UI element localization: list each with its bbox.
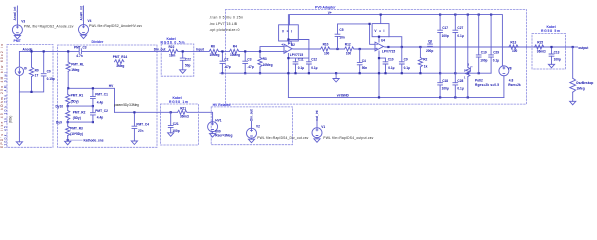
svg-text:36mΩ: 36mΩ bbox=[180, 115, 189, 119]
svg-text:0.1µ: 0.1µ bbox=[311, 66, 317, 70]
voltage source V4 bbox=[79, 6, 143, 35]
svg-text:Rser=2k: Rser=2k bbox=[508, 83, 521, 87]
wire R4 to U1 bbox=[239, 47, 284, 74]
ground C13 bbox=[548, 64, 554, 68]
behavioral source B4 bbox=[372, 15, 402, 47]
resistor R21 bbox=[178, 107, 190, 119]
svg-text:50p: 50p bbox=[185, 63, 191, 67]
svg-text:V4: V4 bbox=[88, 19, 92, 23]
capacitor C17 bbox=[438, 15, 449, 74]
mid rail virt bbox=[220, 72, 491, 74]
node dot B4 bottom bbox=[378, 36, 380, 38]
svg-text:0.1µ: 0.1µ bbox=[493, 58, 499, 62]
wire pmt bottom bbox=[19, 75, 43, 141]
svg-text:+: + bbox=[281, 43, 283, 47]
svg-text:PWL file=RapIDS4_Div_out.csv: PWL file=RapIDS4_Div_out.csv bbox=[257, 136, 308, 140]
node dot anode-divider bbox=[67, 50, 69, 52]
junction dots mid rail bbox=[287, 72, 480, 74]
capacitor C19 bbox=[476, 15, 487, 74]
voltage source V3 bbox=[12, 6, 73, 35]
svg-text:R6: R6 bbox=[211, 44, 215, 48]
svg-text:.param 5Dy 3.3Meg: .param 5Dy 3.3Meg bbox=[114, 103, 139, 107]
svg-text:PMT_R2: PMT_R2 bbox=[73, 111, 86, 115]
svg-text:R2: R2 bbox=[423, 58, 427, 62]
resistor PMT_R1 bbox=[66, 88, 84, 103]
resistor R22 bbox=[169, 45, 178, 58]
HV Related box bbox=[211, 107, 292, 145]
resistor PMT_R2 bbox=[66, 110, 86, 120]
svg-text:PMT_C1: PMT_C1 bbox=[95, 93, 108, 97]
svg-text:PMT_R3: PMT_R3 bbox=[70, 127, 83, 131]
capacitor C27 bbox=[453, 15, 464, 74]
svg-text:27n: 27n bbox=[138, 129, 144, 133]
capacitor C28 bbox=[453, 73, 464, 97]
svg-text:C6: C6 bbox=[428, 40, 432, 44]
current source I0 bbox=[15, 66, 27, 75]
svg-text:.opt plotwinsize=0: .opt plotwinsize=0 bbox=[209, 28, 240, 32]
junction dots pmt bbox=[30, 50, 44, 93]
junction dots V+ rail bbox=[439, 14, 492, 16]
junction dots U4 out bbox=[378, 46, 422, 59]
wire HV to kabel1m bbox=[115, 112, 213, 122]
ground kathode bbox=[65, 141, 71, 145]
ground HV1 bbox=[210, 134, 216, 138]
svg-text:0.1µ: 0.1µ bbox=[404, 66, 410, 70]
svg-text:4.4p: 4.4p bbox=[97, 116, 103, 120]
svg-text:RG58 1m: RG58 1m bbox=[169, 100, 188, 104]
svg-text:PWL file=RapIDS2_AnodeHV.csv: PWL file=RapIDS2_AnodeHV.csv bbox=[89, 24, 142, 28]
resistor R12 bbox=[345, 42, 354, 55]
capacitor C0 bbox=[41, 69, 55, 81]
svg-text:(10*5Dy): (10*5Dy) bbox=[70, 132, 83, 136]
capacitor C29 bbox=[489, 15, 500, 74]
svg-text:(5Dy): (5Dy) bbox=[73, 116, 81, 120]
resistor R10 bbox=[321, 42, 330, 55]
resistor R15 bbox=[535, 40, 547, 53]
ground pmt bbox=[16, 142, 22, 146]
svg-text:RG58 0.5m: RG58 0.5m bbox=[161, 41, 185, 45]
wire U1 supply pins bbox=[288, 40, 309, 98]
node dot B2 out bbox=[287, 38, 289, 40]
PMT box bbox=[7, 45, 53, 148]
svg-text:C2: C2 bbox=[224, 57, 228, 61]
svg-text:Dy10: Dy10 bbox=[56, 104, 64, 108]
svg-text:4.8: 4.8 bbox=[509, 79, 514, 83]
wire anode top bbox=[19, 51, 68, 72]
svg-text:Rges=2k s=0.5: Rges=2k s=0.5 bbox=[475, 83, 499, 87]
svg-text:PMT: PMT bbox=[14, 39, 22, 43]
resistor OszBeskop bbox=[570, 47, 594, 101]
resistor R3 bbox=[258, 57, 273, 67]
voltage source V2 bbox=[247, 122, 309, 140]
svg-text:0.1µ: 0.1µ bbox=[298, 66, 304, 70]
svg-text:Divider: Divider bbox=[92, 40, 105, 44]
svg-text:0.1µ: 0.1µ bbox=[457, 34, 463, 38]
V+ rail top bbox=[289, 15, 502, 66]
svg-text:Div_out: Div_out bbox=[250, 108, 254, 121]
capacitor C18 bbox=[438, 73, 449, 97]
svg-text:C12: C12 bbox=[311, 58, 317, 62]
capacitor C13 bbox=[549, 47, 561, 64]
svg-text:PWL file=RapIDS4_output.csv: PWL file=RapIDS4_output.csv bbox=[323, 136, 373, 140]
op-amp U1 bbox=[284, 41, 303, 57]
svg-text:C18: C18 bbox=[442, 79, 448, 83]
potentiometer Poti2 bbox=[464, 63, 499, 98]
svg-text:R4: R4 bbox=[233, 44, 237, 48]
junction dots HV wire bbox=[133, 111, 172, 113]
svg-text:C27: C27 bbox=[457, 26, 463, 30]
svg-text:PMT_R14: PMT_R14 bbox=[113, 55, 128, 59]
voltage source V1 bbox=[312, 122, 374, 140]
junction dots virtGND rail bbox=[378, 96, 469, 98]
svg-text:(5Dy): (5Dy) bbox=[71, 99, 79, 103]
svg-text:100p: 100p bbox=[480, 58, 487, 62]
svg-text:V = I: V = I bbox=[374, 29, 384, 33]
svg-text:Input: Input bbox=[196, 48, 205, 52]
svg-text:Rser=3Meg: Rser=3Meg bbox=[215, 134, 232, 138]
svg-text:10Meg: 10Meg bbox=[230, 53, 240, 57]
svg-text:0.1µ: 0.1µ bbox=[388, 66, 394, 70]
svg-text:100: 100 bbox=[346, 52, 352, 56]
behavioral source B2 bbox=[279, 15, 299, 48]
node dot C5 corner bbox=[369, 23, 371, 25]
resistor R6 bbox=[209, 44, 219, 57]
Kabel RG58 0.5m box bbox=[161, 44, 194, 76]
svg-text:C0: C0 bbox=[47, 69, 51, 73]
svg-text:100p: 100p bbox=[554, 57, 561, 61]
capacitor C6 bbox=[426, 40, 433, 53]
svg-text:AnHV_int: AnHV_int bbox=[79, 5, 83, 20]
svg-text:PWL file=RapIDS2_Anode.csv: PWL file=RapIDS2_Anode.csv bbox=[24, 24, 74, 28]
Kabel RG58 5m box bbox=[532, 34, 566, 70]
svg-text:C17: C17 bbox=[442, 26, 448, 30]
svg-text:R10: R10 bbox=[323, 42, 329, 46]
capacitor C4 bbox=[357, 49, 367, 73]
svg-text:output: output bbox=[578, 46, 589, 50]
svg-text:100: 100 bbox=[324, 52, 330, 56]
svg-text:10Meg: 10Meg bbox=[263, 63, 273, 67]
svg-text:C3: C3 bbox=[247, 57, 251, 61]
junction dots R10 R12 bbox=[336, 48, 360, 50]
capacitor C21 bbox=[168, 112, 179, 133]
node Dy10 bbox=[56, 104, 93, 111]
svg-text:PV0 Adapter: PV0 Adapter bbox=[315, 6, 336, 10]
node output bbox=[572, 46, 590, 50]
svg-text:.inc LPV7715.LIB: .inc LPV7715.LIB bbox=[209, 22, 238, 26]
node dot B4 top rail bbox=[380, 14, 382, 16]
svg-text:PMT_R1: PMT_R1 bbox=[71, 93, 84, 97]
svg-text:C9: C9 bbox=[404, 58, 408, 62]
svg-text:R22: R22 bbox=[169, 45, 175, 49]
svg-text:36mΩ: 36mΩ bbox=[537, 49, 546, 53]
ground under V4 bbox=[80, 34, 86, 38]
wire U4 output and main out bbox=[379, 47, 573, 98]
svg-text:C28: C28 bbox=[457, 79, 463, 83]
svg-text:1Meg: 1Meg bbox=[71, 68, 79, 72]
svg-text:V+: V+ bbox=[328, 11, 332, 15]
svg-text:Div_out: Div_out bbox=[154, 48, 167, 52]
svg-text:50n: 50n bbox=[362, 66, 368, 70]
ground OszBeskop bbox=[570, 101, 576, 105]
capacitor C3 bbox=[243, 57, 254, 69]
svg-text:PMT_C3: PMT_C3 bbox=[74, 46, 87, 50]
svg-text:100: 100 bbox=[512, 49, 518, 53]
wire HV node bbox=[68, 71, 114, 112]
svg-text:1T: 1T bbox=[35, 74, 39, 78]
svg-text:V8: V8 bbox=[508, 66, 512, 70]
voltage source HV1 bbox=[208, 118, 233, 137]
svg-text:R0: R0 bbox=[35, 69, 39, 73]
svg-text:C29: C29 bbox=[493, 51, 499, 55]
svg-text:C5: C5 bbox=[339, 28, 343, 32]
svg-text:C10: C10 bbox=[388, 58, 394, 62]
svg-text:.47p: .47p bbox=[247, 65, 253, 69]
wire divider main bbox=[68, 51, 168, 62]
capacitor PMT_C2 bbox=[91, 109, 109, 120]
svg-text:Kathode_sns: Kathode_sns bbox=[84, 139, 104, 143]
capacitor C5 bbox=[335, 24, 370, 49]
svg-text:Dy9: Dy9 bbox=[56, 121, 62, 125]
ground C22 bbox=[180, 70, 186, 74]
junction dots input network bbox=[221, 50, 261, 74]
ground under V3 bbox=[14, 35, 20, 39]
svg-text:B2: B2 bbox=[291, 43, 295, 47]
ground V2 bbox=[248, 139, 254, 143]
svg-text:4.4p: 4.4p bbox=[97, 100, 103, 104]
wire U1 output bbox=[292, 48, 376, 50]
Divider box bbox=[58, 45, 158, 147]
svg-text:C22: C22 bbox=[185, 58, 191, 62]
virtGND rail bbox=[288, 96, 504, 98]
svg-text:PMT_RL: PMT_RL bbox=[71, 63, 84, 67]
svg-text:Anod_int: Anod_int bbox=[13, 6, 17, 21]
capacitor C11 bbox=[293, 58, 304, 70]
svg-text:Poti2: Poti2 bbox=[475, 79, 483, 83]
svg-text:4.7n: 4.7n bbox=[76, 54, 82, 58]
resistor R4 bbox=[230, 44, 240, 57]
svg-text:10n: 10n bbox=[339, 36, 345, 40]
Kabel RG58 1m box bbox=[161, 104, 199, 145]
ground mid rail bbox=[333, 73, 339, 82]
capacitor C9 bbox=[399, 47, 410, 73]
wire C5 to U4 minus bbox=[370, 24, 375, 44]
svg-text:C21: C21 bbox=[173, 122, 179, 126]
capacitor C22 bbox=[180, 58, 191, 68]
svg-text:PMT_C4: PMT_C4 bbox=[136, 123, 149, 127]
svg-text:V2: V2 bbox=[256, 124, 260, 128]
svg-text:out_int: out_int bbox=[315, 109, 319, 121]
svg-text:C13: C13 bbox=[554, 51, 560, 55]
svg-text:1k: 1k bbox=[424, 65, 428, 69]
ground PMT_C4 bbox=[131, 141, 137, 145]
svg-text:C4: C4 bbox=[362, 59, 366, 63]
PV0 Adapter box bbox=[225, 10, 526, 105]
svg-text:200p: 200p bbox=[426, 49, 433, 53]
svg-text:0.15p: 0.15p bbox=[47, 77, 55, 81]
resistor R2 bbox=[418, 47, 427, 73]
node dot C13 bbox=[550, 46, 552, 48]
capacitor PMT_C1 bbox=[91, 93, 109, 105]
svg-text:C19: C19 bbox=[481, 51, 487, 55]
svg-text:U4: U4 bbox=[381, 39, 385, 43]
node Dy9 bbox=[56, 106, 93, 126]
svg-text:RG58 5m: RG58 5m bbox=[541, 29, 560, 33]
capacitor C12 bbox=[307, 58, 318, 70]
svg-text:HV Related: HV Related bbox=[213, 103, 231, 107]
svg-text:R3: R3 bbox=[263, 57, 267, 61]
resistor R13 bbox=[509, 40, 518, 53]
svg-text:V = I: V = I bbox=[282, 29, 292, 33]
capacitor PMT_C3 bbox=[74, 46, 87, 58]
svg-text:1Meg: 1Meg bbox=[577, 87, 585, 91]
svg-text:R15: R15 bbox=[537, 40, 543, 44]
svg-text:(60x): (60x) bbox=[9, 116, 13, 123]
node dot C22 bbox=[182, 50, 184, 52]
svg-text:10Meg: 10Meg bbox=[210, 53, 220, 57]
junction dots divider bbox=[67, 87, 94, 141]
node dot U1 vneg bbox=[287, 57, 289, 59]
capacitor PMT_C4 bbox=[132, 112, 149, 141]
wire R22 to input bbox=[178, 51, 209, 69]
svg-text:PMT_C2: PMT_C2 bbox=[95, 109, 108, 113]
svg-text:OszBeskop: OszBeskop bbox=[576, 81, 593, 85]
svg-text:18m: 18m bbox=[169, 54, 176, 58]
svg-text:LPV7715: LPV7715 bbox=[382, 50, 396, 54]
resistor R0 bbox=[29, 67, 39, 77]
capacitor C10 bbox=[383, 58, 395, 70]
svg-text:HV1: HV1 bbox=[215, 118, 221, 122]
voltage source V8 bbox=[499, 66, 521, 98]
svg-text:V1: V1 bbox=[321, 125, 325, 129]
svg-text:V3: V3 bbox=[21, 19, 25, 23]
svg-text:.tran 0 500u 0 25n: .tran 0 500u 0 25n bbox=[209, 16, 243, 20]
resistor PMT_R3 bbox=[66, 126, 83, 136]
wire R6-R4 bbox=[219, 51, 230, 73]
capacitor C2 bbox=[220, 57, 231, 69]
ground V1 bbox=[314, 139, 320, 143]
svg-text:100p: 100p bbox=[442, 34, 449, 38]
ground C21 bbox=[168, 133, 174, 137]
resistor PMT_RL bbox=[66, 62, 84, 72]
svg-text:R12: R12 bbox=[345, 42, 351, 46]
svg-text:3Meg: 3Meg bbox=[116, 64, 124, 68]
resistor PMT_R14 (spare) bbox=[113, 55, 128, 68]
svg-text:C11: C11 bbox=[298, 58, 304, 62]
svg-text:LPV7715: LPV7715 bbox=[290, 53, 304, 57]
wire rail drop plain bbox=[467, 15, 469, 68]
svg-text:I0: I0 bbox=[24, 66, 27, 70]
op-amp U4 bbox=[375, 39, 395, 54]
svg-text:.47p: .47p bbox=[224, 65, 230, 69]
svg-text:0.1µ: 0.1µ bbox=[457, 87, 463, 91]
svg-text:R13: R13 bbox=[510, 40, 516, 44]
node Kathode_sns bbox=[68, 136, 104, 143]
svg-text:R21: R21 bbox=[180, 107, 186, 111]
svg-text:100µ: 100µ bbox=[442, 87, 449, 91]
svg-text:virtGND: virtGND bbox=[337, 94, 350, 98]
